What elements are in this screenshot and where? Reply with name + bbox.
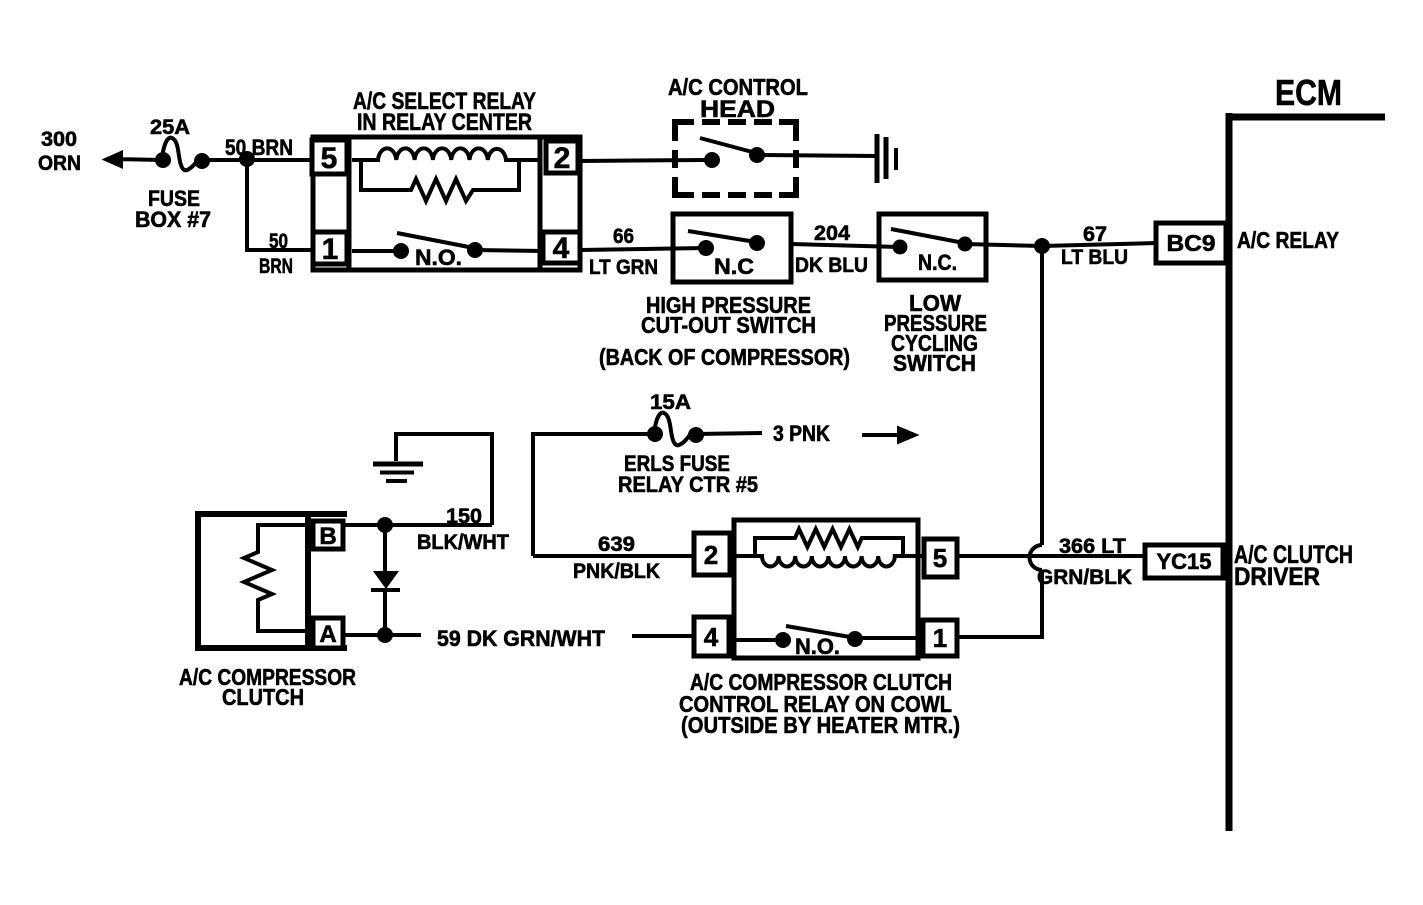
node 300 ORN label [38, 128, 81, 175]
compressor clutch pin A [313, 618, 343, 648]
diode D1 [371, 525, 400, 635]
svg-text:N.O.: N.O. [415, 245, 462, 270]
wire HP to LP switch, 204 DK BLU [791, 222, 900, 277]
svg-text:ORN: ORN [38, 152, 81, 175]
svg-text:3 PNK: 3 PNK [773, 421, 830, 446]
wire vertical from junction down to relay K2 pin 1 (with hop) [958, 246, 1042, 637]
svg-text:639: 639 [598, 533, 635, 556]
relay K2 pin 5 [924, 539, 957, 577]
svg-text:67: 67 [1083, 223, 1107, 246]
switch N.O. in relay U1 [352, 233, 543, 270]
wire relay pin2 to control head [578, 160, 706, 161]
resistor in relay U1 [361, 160, 519, 201]
relay U1 pin 2 [546, 141, 578, 175]
svg-text:204: 204 [814, 222, 850, 245]
svg-text:ECM: ECM [1275, 72, 1342, 113]
svg-text:HEAD: HEAD [700, 96, 775, 123]
label A/C CLUTCH DRIVER [1234, 541, 1353, 591]
label high pressure cut-out switch [599, 292, 850, 370]
ground (earth) above compressor clutch [373, 434, 492, 525]
svg-text:50 BRN: 50 BRN [225, 135, 293, 160]
svg-text:CUT-OUT SWITCH: CUT-OUT SWITCH [641, 312, 816, 338]
svg-text:DRIVER: DRIVER [1234, 563, 1320, 591]
wire LP switch to junction [965, 244, 1042, 246]
svg-text:N.C: N.C [714, 254, 754, 279]
relay K2 pin 2 [694, 533, 730, 575]
svg-text:366 LT: 366 LT [1059, 535, 1126, 558]
svg-text:50: 50 [269, 230, 288, 253]
svg-text:BC9: BC9 [1167, 230, 1216, 256]
svg-text:BOX #7: BOX #7 [135, 207, 211, 232]
svg-text:IN RELAY CENTER: IN RELAY CENTER [357, 109, 532, 136]
relay U1 coil [352, 148, 540, 160]
svg-text:1: 1 [933, 623, 947, 653]
switch S1 high pressure cut-out [673, 214, 791, 282]
connector YC15 [1145, 545, 1223, 578]
wire relay K2 pin 5 to YC15, 366 LT GRN/BLK [957, 535, 1146, 589]
svg-text:N.O.: N.O. [795, 634, 840, 659]
label A/C COMPRESSOR CLUTCH [179, 664, 356, 710]
svg-text:PNK/BLK: PNK/BLK [573, 560, 660, 583]
svg-text:300: 300 [41, 128, 77, 151]
svg-text:1: 1 [322, 233, 339, 266]
compressor clutch body [198, 514, 347, 648]
switch N.O. in relay K2 [729, 626, 923, 659]
relay K2 coil [729, 556, 923, 567]
wire arrow to fuse 25A [104, 152, 163, 168]
relay U1 pin 1 [313, 232, 347, 266]
resistor in relay K2 [755, 529, 903, 556]
svg-text:LT GRN: LT GRN [589, 256, 658, 279]
ground (chassis) right of control head [877, 134, 896, 183]
coil in compressor clutch [244, 525, 308, 631]
wire 150 BLK/WHT [345, 505, 509, 554]
node junction at pin B [377, 517, 393, 533]
svg-text:A: A [319, 621, 336, 648]
svg-text:BLK/WHT: BLK/WHT [417, 531, 509, 554]
wire junction to BC9, 67 LT BLU [1042, 223, 1156, 269]
node junction at pin A [377, 627, 393, 643]
switch S2 low pressure cycling [879, 214, 986, 280]
svg-text:4: 4 [704, 622, 719, 652]
svg-text:5: 5 [933, 543, 947, 573]
fuse 15A ERLS [533, 391, 704, 556]
svg-text:2: 2 [704, 540, 718, 570]
relay K2 pin 4 [694, 617, 729, 656]
compressor clutch pin B [313, 521, 343, 550]
svg-text:B: B [319, 523, 336, 550]
svg-text:5: 5 [321, 142, 338, 175]
svg-text:59 DK GRN/WHT: 59 DK GRN/WHT [437, 626, 606, 651]
relay U1 pin 4 [543, 232, 580, 265]
svg-text:RELAY CTR #5: RELAY CTR #5 [618, 472, 758, 497]
label FUSE BOX #7 [135, 186, 211, 232]
svg-text:LT BLU: LT BLU [1061, 246, 1128, 269]
svg-text:(OUTSIDE BY HEATER MTR.): (OUTSIDE BY HEATER MTR.) [681, 712, 960, 738]
ECM module line [1226, 72, 1385, 831]
svg-text:25A: 25A [150, 116, 190, 139]
svg-text:N.C.: N.C. [918, 250, 957, 275]
fuse 25A [150, 116, 210, 170]
svg-text:YC15: YC15 [1157, 549, 1212, 574]
relay K2 body [734, 520, 918, 658]
wire branch to relay pin 1 [247, 159, 313, 278]
svg-text:150: 150 [446, 505, 482, 528]
wire 639 PNK/BLK to relay K2 pin 2 [533, 533, 694, 583]
label low pressure cycling switch [884, 290, 987, 376]
node junction at 67 LT BLU [1034, 238, 1050, 254]
svg-text:A/C RELAY: A/C RELAY [1237, 227, 1339, 253]
svg-text:SWITCH: SWITCH [893, 350, 976, 376]
svg-text:66: 66 [613, 225, 634, 248]
A/C control head label [668, 74, 808, 123]
node junction 50 BRN [239, 151, 255, 167]
switch A/C control head (dashed box) [675, 122, 796, 195]
svg-text:GRN/BLK: GRN/BLK [1037, 566, 1132, 589]
relay U1 pin 5 [312, 140, 347, 175]
svg-text:15A: 15A [650, 391, 691, 414]
wire 59 DK GRN/WHT [345, 626, 694, 651]
wire control head to ground [757, 155, 877, 156]
relay U1 A/C select relay title [353, 88, 536, 136]
svg-text:4: 4 [553, 232, 570, 265]
label ERLS FUSE RELAY CTR #5 [618, 451, 758, 497]
connector BC9 [1156, 223, 1226, 263]
svg-text:CLUTCH: CLUTCH [222, 684, 304, 710]
svg-text:(BACK OF COMPRESSOR): (BACK OF COMPRESSOR) [599, 344, 850, 370]
relay K2 pin 1 [923, 620, 957, 656]
wire relay pin4 to high pressure switch, 66 LT GRN [580, 225, 706, 279]
relay U1 body [313, 137, 580, 270]
wire fuse to relay pin 5 [202, 135, 313, 160]
svg-text:BRN: BRN [259, 255, 293, 278]
svg-text:DK BLU: DK BLU [795, 254, 868, 277]
label A/C compressor clutch control relay [679, 669, 960, 738]
svg-text:2: 2 [554, 142, 571, 175]
wire fuse to 3 PNK arrow [696, 421, 917, 446]
